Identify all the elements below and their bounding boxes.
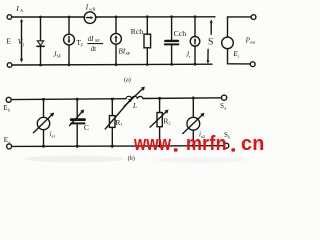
svg-text:SF: SF (126, 51, 131, 56)
svg-text:S: S (208, 36, 213, 47)
svg-text:b: b (228, 135, 230, 140)
svg-text:2: 2 (169, 121, 171, 126)
svg-text:SF: SF (57, 54, 62, 59)
svg-text:SF: SF (95, 38, 100, 43)
svg-text:scR: scR (89, 7, 95, 12)
svg-text:a1: a1 (52, 134, 56, 139)
svg-text:Cch: Cch (174, 29, 187, 38)
svg-text:out: out (250, 40, 256, 45)
svg-text:I: I (15, 4, 19, 13)
svg-text:www: www (133, 131, 171, 155)
svg-text:cn: cn (241, 132, 264, 154)
svg-text:(b): (b) (128, 155, 135, 162)
svg-text:dI: dI (88, 35, 95, 43)
svg-text:a: a (224, 106, 226, 111)
svg-text:mrfn: mrfn (186, 132, 227, 156)
svg-text:C: C (84, 123, 89, 132)
svg-text:(a): (a) (124, 77, 131, 84)
svg-text:L: L (132, 102, 137, 110)
svg-text:dt: dt (91, 45, 97, 53)
svg-text:e: e (9, 140, 11, 145)
svg-text:S: S (220, 102, 224, 110)
svg-text:Rch: Rch (131, 27, 144, 36)
svg-text:1: 1 (121, 122, 123, 127)
svg-text:E: E (6, 37, 11, 46)
svg-text:I: I (85, 2, 89, 11)
svg-text:b: b (8, 108, 10, 113)
svg-text:j: j (22, 42, 24, 47)
